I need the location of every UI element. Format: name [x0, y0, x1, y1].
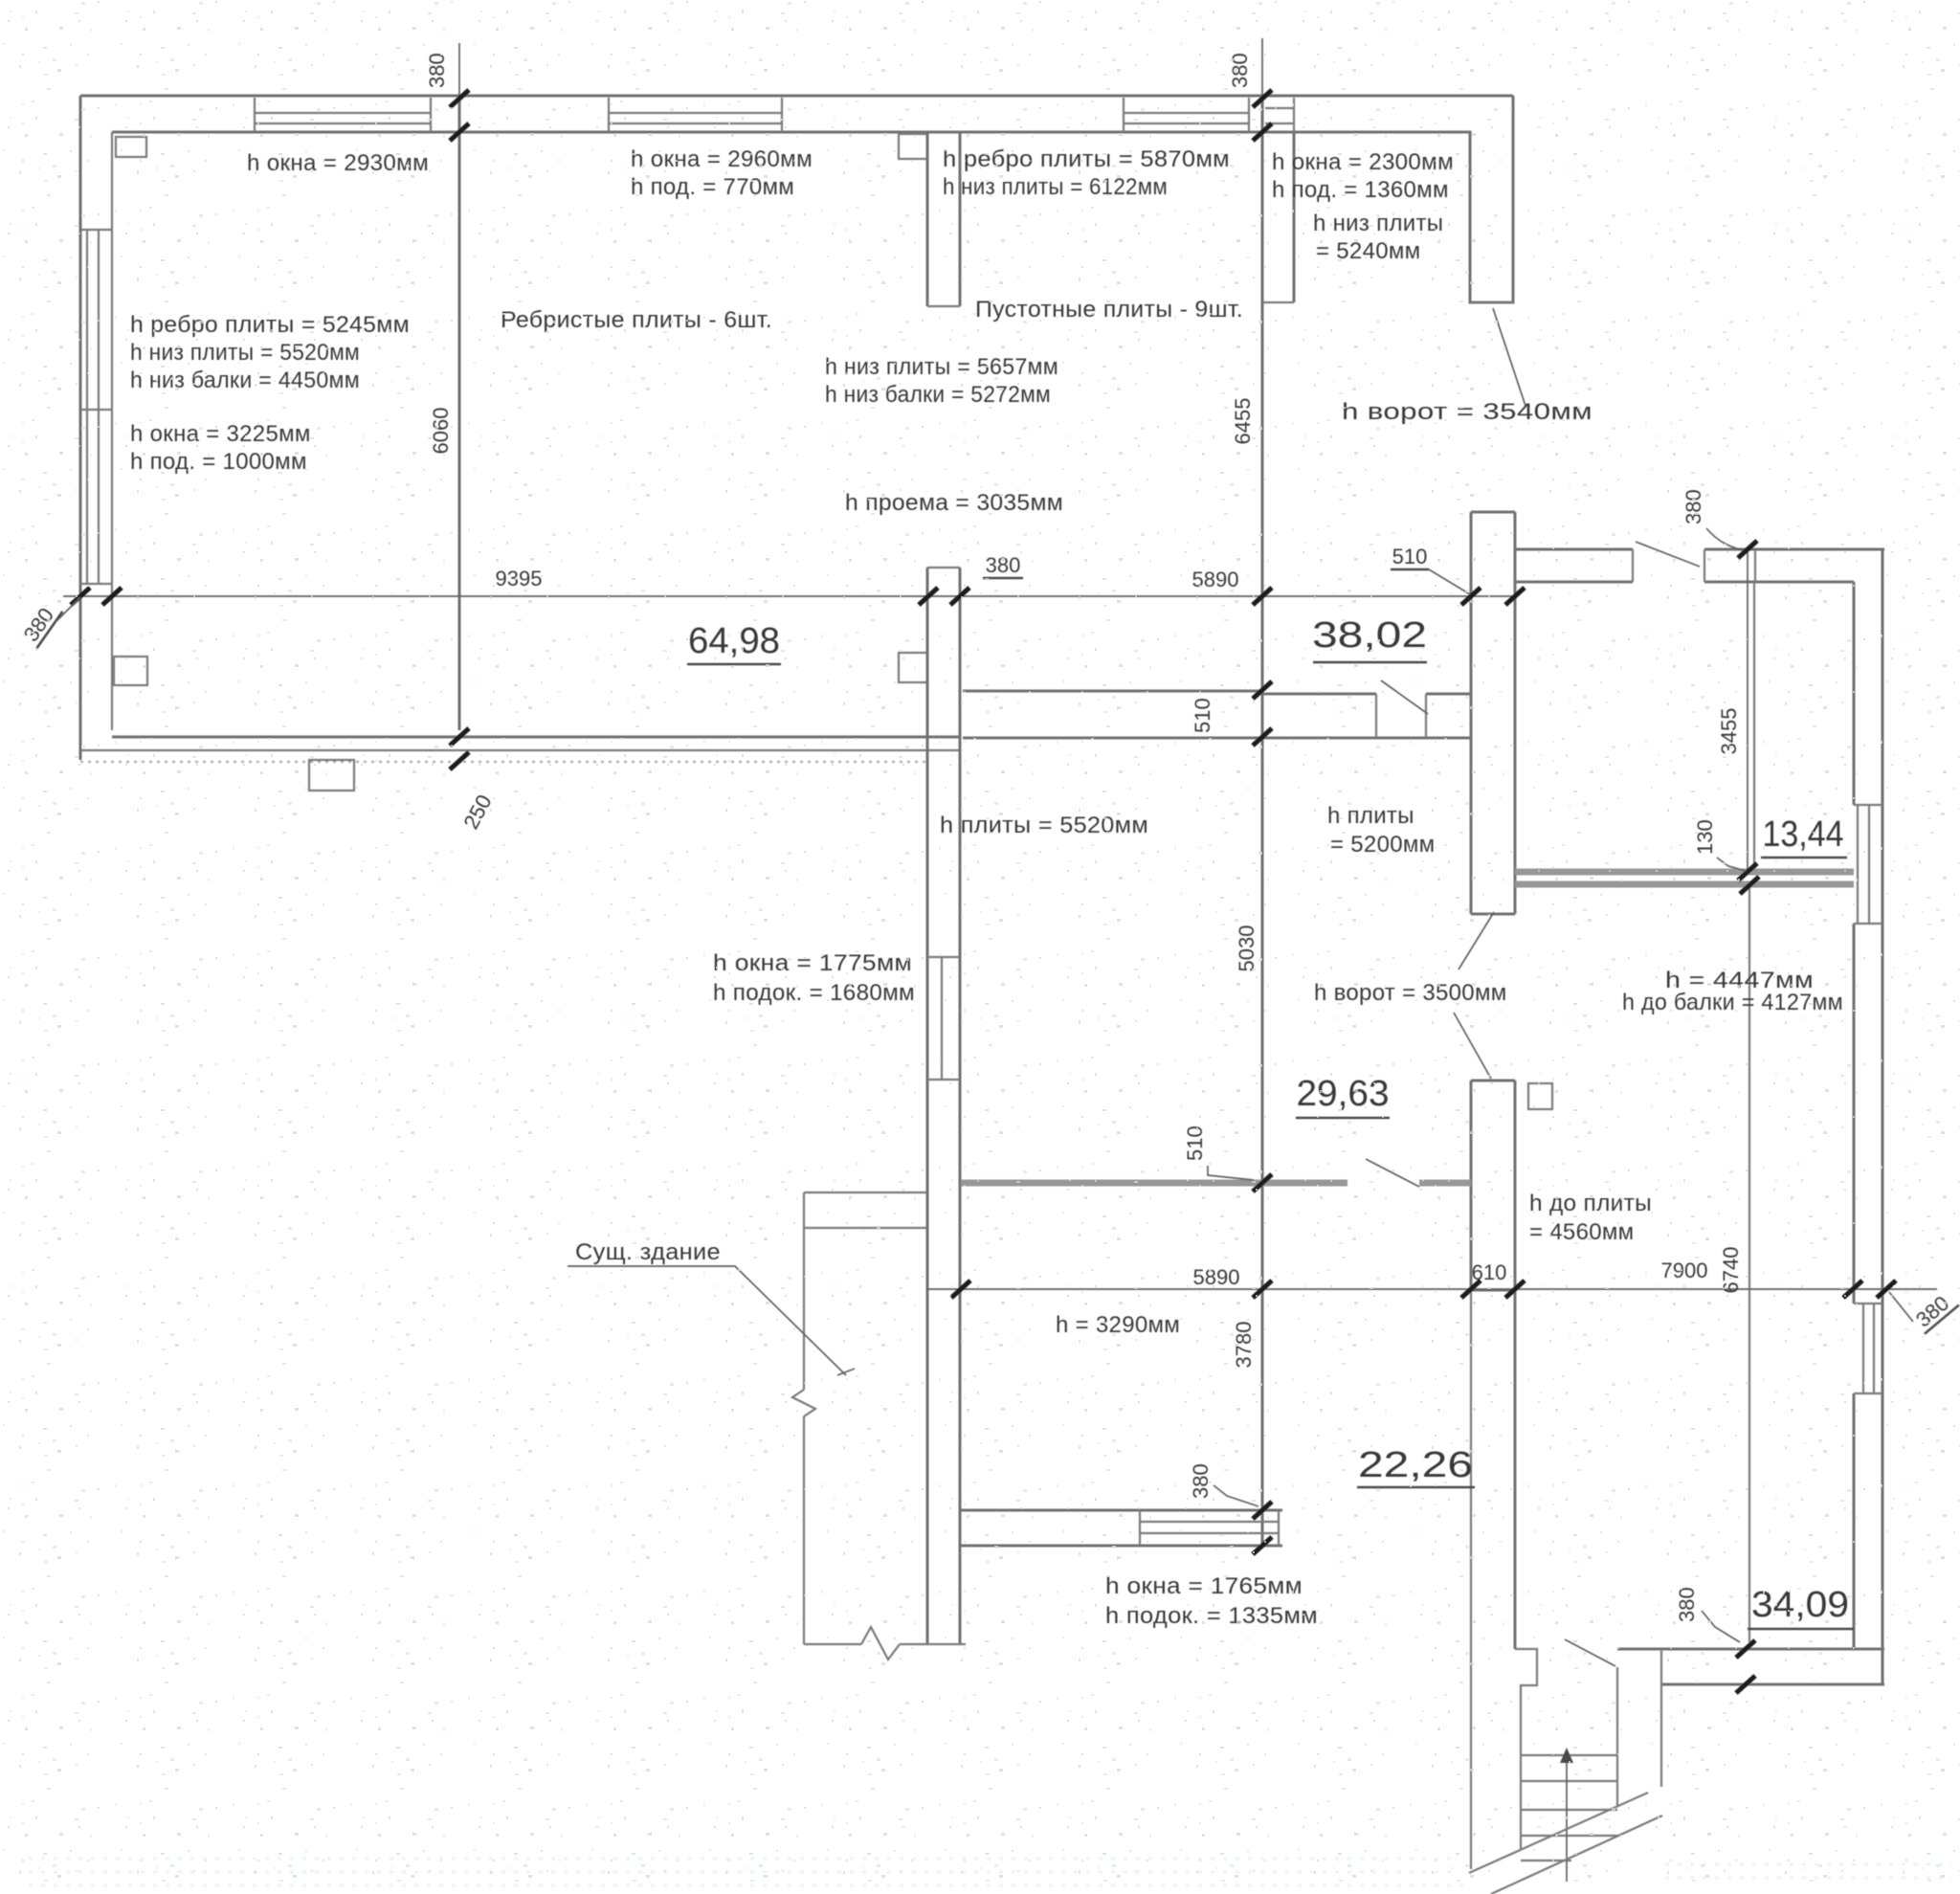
wall: room 22,26 bottom upper line — [961, 1509, 1282, 1512]
right wing top wall outer line — [1515, 548, 1884, 551]
stair treads — [1521, 1755, 1617, 1861]
wall: top exterior outer line — [80, 95, 1513, 98]
partition P1 right part — [1419, 1180, 1471, 1187]
extension line above wall 3 — [1261, 38, 1263, 96]
dim label 6740 rotated — [1719, 1247, 1743, 1294]
pier in room1 bottom — [114, 657, 147, 685]
dim label 380 rotated at right wing bottom with leader — [1675, 1587, 1699, 1622]
pier in room1 top — [116, 137, 146, 157]
door leaf D2 — [1366, 1159, 1419, 1187]
window W3 in top wall — [1124, 98, 1249, 132]
dim label 380 left end slanted — [17, 597, 62, 648]
wall: left wing bottom second line — [80, 749, 961, 751]
dim label 6060 rotated at wall1 — [429, 408, 453, 455]
interior wall 1 (rooms 1/2) — [458, 99, 461, 730]
door leaf D3 — [1636, 542, 1700, 567]
wall: left wing bottom inner line — [112, 736, 961, 739]
extension line above wall 1 — [458, 43, 460, 96]
square column near lower gate pier — [1528, 1083, 1552, 1109]
pier left of wall2 top — [899, 134, 927, 159]
window in left exterior wall — [80, 230, 112, 584]
dim label 250 rotated at wall1 bottom — [458, 791, 496, 833]
leader h vorot 3540 — [1493, 308, 1526, 406]
wall: room 22,26 bottom lower line — [961, 1545, 1282, 1548]
ticks on dimension line 2 — [951, 1281, 1896, 1298]
dim label 380 rotated top wall1 — [425, 53, 449, 88]
leader for 380 left — [56, 597, 80, 622]
interior wall 3 right line upper — [1293, 132, 1296, 302]
window R2 in right wall — [1854, 1304, 1882, 1393]
pier below left wing bottom wall — [309, 760, 354, 791]
stair up arrow — [1566, 1759, 1568, 1882]
partition P2 double line — [1515, 869, 1854, 876]
vertical dim line 3455 — [1747, 549, 1748, 872]
interior wall 2 left line lower — [926, 568, 929, 1644]
dim label 6455 rotated at wall3 — [1231, 398, 1255, 445]
central wall lower gate pier — [1471, 1081, 1515, 1290]
stair right wall — [1616, 1667, 1618, 1806]
dim label 380 rotated top wall3 — [1228, 53, 1252, 88]
interior wall 2 left line upper — [926, 132, 929, 306]
bottom wall step leg — [1660, 1684, 1662, 1787]
top ticks at wall 3 — [1253, 90, 1272, 141]
leader h vorot 3500 lower — [1454, 1013, 1491, 1079]
ticks at wall3 H2 crossing — [1253, 681, 1272, 746]
top ticks at wall 1 — [450, 90, 469, 141]
ticks on dimension line 1 — [71, 588, 1525, 605]
partition P1 left part — [961, 1180, 1347, 1187]
right wing bottom wall outer — [1661, 1683, 1884, 1686]
existing building left wall with break — [792, 1192, 815, 1644]
right wing room left wall lower — [1748, 885, 1750, 1642]
right wing top wall door caps — [1633, 549, 1755, 582]
interior wall 2 right line lower — [959, 568, 962, 1644]
wall: left wing bottom outer dotted line — [80, 761, 926, 763]
window W2 in top wall — [609, 98, 782, 132]
dimension line 1 (y=623) — [63, 595, 1515, 597]
right wing room left wall upper — [1753, 582, 1755, 871]
window W4 corner piece in top wall — [1265, 98, 1294, 132]
existing building bottom wall with break — [804, 1627, 966, 1660]
dimension line 2 (y=1347) — [926, 1288, 1937, 1290]
dim label 3455 rotated — [1717, 708, 1741, 755]
interior wall H2 upper line — [963, 691, 1471, 694]
tick at partition P2 left wall — [1740, 877, 1759, 894]
wall 2 lower cap — [927, 567, 960, 568]
central wall upper gate pier bottom cap — [1470, 301, 1513, 303]
dim label 3780 rotated at wall3 — [1232, 1322, 1256, 1369]
right wing top wall inner line — [1515, 581, 1854, 584]
dim label 130 rotated with leader — [1693, 819, 1717, 855]
wall: left exterior outer — [79, 96, 82, 760]
right wing bottom wall inner — [1617, 1648, 1884, 1651]
door leaf D1 — [1381, 680, 1428, 714]
ticks at wall1 bottom crossing — [450, 728, 469, 769]
window W1 in top wall — [255, 98, 431, 132]
central wall line continuation to stairwell — [1470, 1290, 1472, 1869]
stair wing left wall — [1514, 1290, 1517, 1649]
tick at P1 wall3 crossing — [1253, 1174, 1272, 1192]
wall 2 upper cap — [927, 305, 960, 307]
wall: top exterior inner line with right pier — [112, 96, 1513, 302]
stair cut diagonal A — [1469, 1793, 1648, 1873]
interior wall 3 main line — [1261, 99, 1264, 1548]
stair wing left wall notch — [1515, 1649, 1537, 1850]
dim label 380 rotated at 22,26 bottom with leader — [1189, 1463, 1213, 1499]
right wing inner right wall — [1853, 582, 1856, 1649]
window in 22,26 bottom wall — [1140, 1510, 1279, 1546]
dim label 5030 rotated at wall3 — [1235, 925, 1258, 972]
pier left of wall2 middle — [899, 653, 927, 682]
interior wall 2 right line upper — [959, 132, 962, 306]
window in wall 2 — [927, 957, 960, 1080]
central wall middle segment — [1471, 512, 1515, 914]
faint watermark strip at bottom — [29, 1859, 1952, 1885]
dim label 510 rotated at partition P1 with leader — [1183, 1125, 1207, 1161]
stair cut diagonal B — [1491, 1816, 1662, 1894]
existing building wall band — [804, 1192, 927, 1228]
dim label 510 rotated at H2 wall — [1191, 698, 1214, 733]
right wing bottom wall left step — [1660, 1649, 1662, 1684]
right wing outer right wall — [1882, 549, 1884, 1684]
leader h vorot 3500 upper — [1459, 912, 1494, 969]
ticks at right wing bottom wall — [1736, 1640, 1755, 1693]
H2 door jamb caps — [1376, 694, 1426, 738]
wall: left exterior inner — [111, 132, 113, 730]
dim label 380 right end slanted with leader — [1909, 1286, 1959, 1333]
ticks at 22,26 bottom wall — [1253, 1502, 1272, 1554]
window R1 in right wall — [1854, 805, 1882, 924]
dim label 380 rotated top of 3455 line — [1682, 489, 1705, 524]
interior wall H2 lower line — [963, 737, 1471, 740]
wall 3 cap at gate room — [1262, 301, 1294, 303]
door leaf D4 at stairs — [1565, 1639, 1615, 1666]
